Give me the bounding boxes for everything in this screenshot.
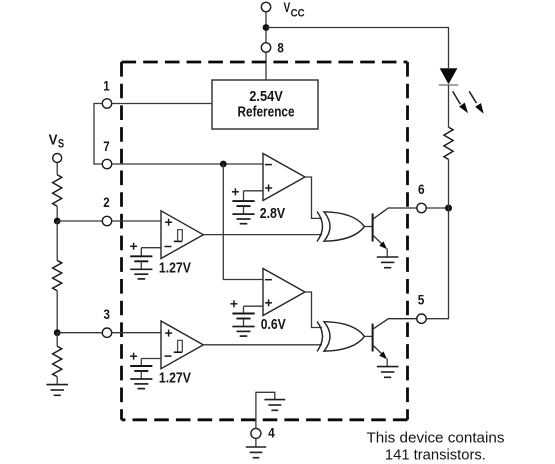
resistor R4	[444, 127, 453, 159]
pin 1 terminal	[102, 99, 111, 108]
comparator A3 minus input	[165, 355, 172, 357]
wire A1 output to XOR1	[203, 234, 322, 236]
comparator A3 hysteresis symbol	[174, 340, 183, 352]
comparator A1 hysteresis symbol	[174, 230, 183, 242]
LED light arrow 2 head	[475, 103, 484, 114]
IC package dashed boundary	[122, 62, 408, 420]
wire pin 8 to reference	[265, 52, 267, 80]
transistor Q1 emitter	[373, 235, 384, 246]
comparator A3 plus input	[165, 330, 172, 337]
transistor Q1 base bar	[372, 214, 374, 242]
wire R4 to pin6 node and pin5	[426, 159, 448, 318]
wire A3 output to XOR2	[203, 344, 322, 346]
svg-text:6: 6	[418, 182, 425, 197]
svg-text:2.8V: 2.8V	[260, 206, 286, 222]
resistor R2	[53, 260, 62, 290]
LED D1 cathode bar	[439, 84, 459, 86]
comparator A4 (0.6V)	[263, 269, 305, 316]
battery reference 1.27V (A3)	[130, 359, 152, 389]
svg-text:8: 8	[277, 41, 284, 56]
svg-text:V: V	[49, 133, 58, 149]
XOR gate G1	[317, 212, 365, 242]
pin 7 terminal	[102, 159, 111, 168]
wire VCC down to pin 8	[265, 12, 267, 43]
wire node to 0.6V comparator minus	[223, 164, 263, 280]
wire node A to pin 2	[57, 220, 102, 222]
svg-text:2.54V: 2.54V	[249, 89, 283, 105]
resistor R1	[53, 175, 62, 206]
wire XOR2 output to Q2 base	[365, 335, 373, 337]
ground external (pin 4)	[246, 447, 266, 458]
transistor Q2 base bar	[372, 324, 374, 352]
wire XOR1 output to Q1 base	[365, 226, 373, 228]
pin 5 terminal	[417, 314, 426, 323]
LED light arrow 1	[453, 91, 461, 104]
battery reference 1.27V (A3) plus sign	[130, 353, 137, 360]
comparator A2 minus input	[265, 164, 272, 166]
wire A4 output to XOR2 top input	[305, 292, 322, 328]
wire bracket pin1 to pin7	[94, 104, 102, 165]
wire Q1 emitter to ground	[386, 249, 388, 258]
comparator A4 minus input	[265, 279, 272, 281]
svg-text:1.27V: 1.27V	[159, 260, 191, 276]
svg-text:S: S	[58, 139, 64, 151]
wire R1 to node A	[56, 206, 58, 221]
junction node A	[54, 218, 61, 225]
terminal VS	[53, 154, 62, 163]
wire A1 minus to reference battery	[141, 247, 161, 249]
comparator A4 plus input	[265, 299, 272, 306]
ground Q2 emitter	[377, 367, 399, 378]
transistor Q1 collector	[373, 208, 417, 219]
svg-text:2: 2	[103, 195, 109, 210]
pin 4 terminal	[251, 428, 261, 438]
pin 6 terminal	[417, 203, 426, 212]
wire Q2 emitter to ground	[386, 359, 388, 367]
ground Q1 emitter	[377, 257, 399, 268]
comparator A1 plus input	[165, 219, 172, 226]
junction VCC node	[263, 24, 270, 31]
wire VS to R1	[56, 163, 58, 175]
resistor R3	[53, 346, 62, 377]
wire A3 minus to reference battery	[141, 358, 161, 360]
wire internal ground net	[256, 392, 275, 419]
battery reference 2.8V	[232, 191, 254, 224]
wire pin 4 upper lead	[255, 420, 257, 429]
comparator A3 (1.27V hysteresis)	[161, 321, 203, 369]
wire pin 7 to comparator minus	[112, 163, 263, 165]
svg-text:CC: CC	[291, 7, 305, 19]
wire LED to R4	[448, 85, 450, 127]
transistor Q2 emitter	[373, 345, 384, 356]
wire pin 4 to external ground	[255, 439, 257, 448]
wire pin 6 to output rail	[426, 207, 448, 209]
terminal VCC	[261, 2, 270, 11]
wire node B to R3	[56, 333, 58, 347]
wire pin 1 to reference box	[112, 103, 212, 105]
wire pin 3 to hysteresis comparator	[112, 332, 161, 334]
LED D1	[440, 68, 458, 84]
pin 8 terminal	[261, 43, 270, 52]
transistor Q1 emitter arrow	[379, 241, 387, 249]
svg-text:This device contains: This device contains	[367, 429, 505, 446]
svg-text:5: 5	[418, 293, 425, 308]
svg-text:V: V	[284, 0, 291, 15]
wire node A to R2	[56, 221, 58, 260]
svg-text:0.6V: 0.6V	[261, 317, 286, 333]
wire node B to pin 3	[57, 332, 102, 334]
wire A2 plus to battery	[244, 190, 264, 192]
battery reference 0.6V	[232, 306, 254, 336]
transistor Q2 collector	[373, 319, 417, 330]
pin 2 terminal	[102, 216, 111, 225]
svg-text:4: 4	[268, 425, 275, 440]
wire R2 to node B	[56, 291, 58, 333]
wire VCC to LED rail	[266, 28, 449, 69]
wire R3 to ground	[56, 377, 58, 385]
svg-text:1: 1	[103, 79, 110, 94]
comparator A2 plus input	[265, 185, 272, 192]
comparator A2 (2.8V)	[263, 154, 305, 201]
battery reference 1.27V (A1)	[130, 248, 152, 279]
XOR gate G2	[317, 321, 365, 351]
svg-text:1.27V: 1.27V	[159, 370, 191, 386]
battery reference 0.6V plus sign	[230, 300, 237, 307]
junction pin7 node	[220, 161, 227, 168]
junction output rail node	[445, 205, 452, 212]
wire A2 output to XOR1 top input	[305, 177, 322, 218]
svg-text:141 transistors.: 141 transistors.	[385, 447, 486, 464]
svg-text:7: 7	[103, 139, 109, 154]
ground internal (pin 4)	[264, 400, 285, 411]
2.54V reference block U1	[212, 80, 318, 129]
battery reference 1.27V (A1) plus sign	[130, 243, 137, 250]
transistor Q2 emitter arrow	[379, 351, 387, 359]
battery reference 2.8V plus sign	[232, 188, 239, 195]
wire A4 plus to battery	[244, 305, 264, 307]
pin 3 terminal	[102, 328, 111, 337]
wire pin 2 to hysteresis comparator	[112, 220, 161, 222]
LED light arrow 1 head	[459, 103, 468, 114]
svg-text:3: 3	[104, 307, 111, 322]
LED light arrow 2	[469, 91, 476, 103]
junction node B	[54, 329, 61, 336]
svg-text:Reference: Reference	[238, 105, 295, 121]
comparator A1 minus input	[165, 246, 172, 248]
comparator A1 (1.27V hysteresis)	[161, 211, 203, 259]
ground VS divider	[46, 385, 68, 396]
